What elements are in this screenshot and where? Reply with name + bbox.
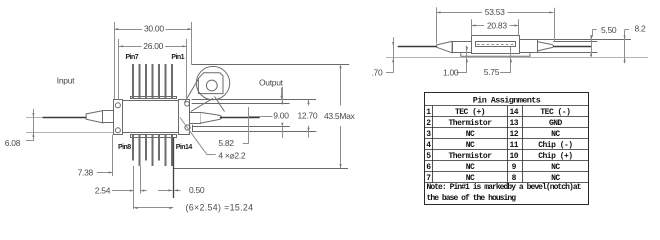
svg-text:the base of the housing: the base of the housing (427, 194, 517, 203)
mounting hole top-left (115, 103, 120, 108)
dim 26.00 line (119, 46, 142, 48)
dim 5.75 stem (510, 47, 512, 70)
svg-text:8.2: 8.2 (635, 24, 646, 34)
long bottom extension line (173, 168, 348, 170)
dim 26.00 extension right (186, 39, 188, 99)
loop bracket diagonal right (215, 97, 225, 112)
mounting hole bottom-left (115, 128, 120, 133)
SIDE VIEW GROUP (437, 36, 631, 57)
table row 7 (426, 174, 560, 183)
SIDE VIEW TEXT (372, 7, 646, 77)
dim 7.38 extension (112, 135, 114, 176)
left flange (114, 100, 123, 135)
side left boot barrel (453, 42, 472, 53)
fiber loop outer circle (196, 66, 229, 99)
dim 30.00 extension left (114, 22, 116, 99)
white gap for 20.83 (485, 22, 510, 31)
side left fiber dark (398, 46, 437, 48)
dim 53.53 ext left (436, 7, 438, 43)
dim 5.75 hook (500, 72, 511, 74)
svg-text:TEC (+): TEC (+) (455, 108, 485, 117)
table outer border (425, 93, 589, 205)
side right boot taper (538, 42, 554, 51)
svg-text:.70: .70 (372, 67, 383, 77)
LEFT VIEW ARROWHEADS (32, 28, 341, 209)
arrow output pointer (280, 96, 282, 100)
svg-text:Pin7: Pin7 (126, 54, 139, 61)
side body (472, 36, 520, 54)
side slot (476, 42, 516, 47)
arrows 15.24 (134, 207, 138, 209)
svg-text:(6×2.54) =15.24: (6×2.54) =15.24 (186, 202, 254, 212)
svg-text:26.00: 26.00 (143, 41, 163, 51)
table row 4 (426, 141, 572, 150)
svg-text:10: 10 (509, 152, 518, 161)
SIDE VIEW DIMENSIONS (386, 7, 629, 73)
arrows 20.83 (472, 24, 476, 26)
svg-text:NC: NC (466, 163, 475, 172)
table row dividers (425, 116, 589, 118)
side base plate (461, 53, 530, 56)
right lower line b (192, 131, 316, 133)
svg-text:9.00: 9.00 (273, 111, 289, 121)
top pin seating strip (131, 97, 177, 99)
arrows 5.50 (590, 35, 592, 39)
svg-text:6.08: 6.08 (5, 138, 21, 148)
dim 15.24 line (134, 207, 173, 209)
svg-text:GND: GND (549, 119, 563, 128)
output snout barrel (190, 113, 201, 124)
dim 2.54 lines (112, 190, 134, 192)
input fiber dark (42, 117, 86, 119)
dim 2.54 extensions (133, 166, 135, 209)
input centerline light (26, 117, 43, 119)
svg-text:Pin1: Pin1 (171, 54, 184, 61)
svg-text:5.82: 5.82 (218, 138, 234, 148)
right lower line a (192, 126, 290, 128)
svg-text:30.00: 30.00 (144, 24, 164, 34)
svg-text:1.00: 1.00 (443, 68, 459, 78)
dim 20.83 ext left (471, 19, 473, 35)
table column lines (432, 106, 434, 183)
dim 1.00 stem (466, 46, 468, 70)
dim 1.00 hook (457, 72, 467, 74)
svg-text:0.50: 0.50 (189, 185, 205, 195)
loop bracket diagonal lower (191, 98, 213, 111)
svg-text:NC: NC (551, 130, 560, 139)
svg-text:12: 12 (509, 130, 518, 139)
input base line light (26, 132, 114, 134)
arrow 7.38 (109, 171, 113, 173)
svg-text:Input: Input (57, 75, 75, 85)
leader 4xdia2.2 (180, 118, 207, 155)
svg-text:NC: NC (466, 174, 475, 183)
dim 0.50 lines (158, 190, 172, 192)
svg-text:3: 3 (426, 130, 431, 139)
svg-text:Chip (+): Chip (+) (538, 152, 572, 161)
arrows 2.54 (130, 190, 134, 192)
side ground line (386, 57, 648, 59)
svg-text:20.83: 20.83 (487, 20, 507, 30)
svg-text:14: 14 (509, 108, 518, 117)
svg-text:NC: NC (551, 174, 560, 183)
side slot dashes (477, 44, 514, 46)
svg-text:5: 5 (426, 152, 431, 161)
table row 6 (426, 163, 560, 172)
svg-text:8: 8 (512, 174, 517, 183)
svg-text:12.70: 12.70 (298, 111, 318, 121)
svg-text:1: 1 (426, 108, 431, 117)
band bottom edge (192, 99, 316, 101)
dim 8.2 hook (625, 29, 629, 31)
input ferrule taper (86, 111, 103, 123)
dim 30.00 line (114, 29, 142, 31)
dim 5.82 hook (243, 143, 249, 145)
SIDE VIEW ARROWHEADS (392, 11, 626, 62)
arrows 9.00 (281, 100, 283, 104)
output fiber dark (220, 117, 260, 119)
LEFT VIEW GROUP (86, 64, 349, 169)
arrows 53.53 (437, 11, 441, 13)
arrow 1.00 (466, 58, 468, 62)
step vertical at lines start (192, 125, 194, 132)
svg-text:5.50: 5.50 (601, 25, 617, 35)
svg-text:2: 2 (426, 119, 431, 128)
dim 7.38 line (97, 172, 113, 174)
svg-text:Chip (-): Chip (-) (538, 141, 572, 150)
fiber loop inner circle (206, 80, 217, 91)
side left boot taper (437, 41, 452, 52)
dim 20.83 line (472, 25, 485, 27)
output pointer stem (281, 88, 283, 97)
mounting hole top-right (185, 102, 190, 107)
dim 30.00 extension right (191, 22, 193, 65)
svg-text:6: 6 (426, 163, 431, 172)
top pins 1-7 (132, 64, 173, 99)
dim 5.50 hook left (593, 29, 597, 31)
dim 53.53 line (437, 12, 483, 14)
svg-text:11: 11 (509, 141, 518, 150)
table row 1 (426, 108, 570, 117)
white gap for 53.53 (483, 8, 508, 17)
dim 12.70 stem (308, 100, 310, 106)
svg-text:13: 13 (509, 119, 518, 128)
svg-text:NC: NC (466, 130, 475, 139)
svg-text:Thermistor: Thermistor (448, 152, 492, 161)
svg-text:9: 9 (512, 163, 517, 172)
fiber clip octagon (198, 73, 223, 94)
dim 43.5 stem (340, 64, 342, 105)
bottom pins 8-14 (132, 135, 173, 167)
PIN TABLE (425, 93, 589, 205)
fiber jacket top line (553, 41, 597, 43)
LEFT VIEW DIMENSIONS (26, 22, 341, 209)
table row 3 (426, 130, 560, 139)
svg-text:5.75: 5.75 (484, 67, 500, 77)
dim 9.00 leader (249, 116, 273, 118)
LEFT VIEW TEXT (5, 24, 356, 213)
arrows 12.70 (307, 100, 309, 104)
svg-text:Pin14: Pin14 (176, 144, 193, 151)
dim 9.00 stem (282, 87, 284, 105)
svg-text:53.53: 53.53 (485, 7, 505, 17)
svg-text:NC: NC (551, 163, 560, 172)
dim 8.2 stem (624, 34, 626, 64)
svg-text:TEC (-): TEC (-) (540, 108, 570, 117)
svg-text:Pin Assignments: Pin Assignments (473, 95, 541, 105)
svg-text:43.5Max: 43.5Max (324, 111, 356, 121)
svg-text:7: 7 (426, 174, 431, 183)
loop bracket diagonal left (185, 79, 199, 103)
input ferrule barrel (103, 111, 114, 123)
arrows 43.5 (339, 64, 341, 68)
side right boot base (537, 39, 539, 52)
dim 5.50 stem (591, 35, 593, 57)
dim .70 hook (386, 72, 393, 74)
arrows .70 (392, 42, 394, 46)
dim .70 stem (393, 37, 395, 70)
thick pin14 extension line (173, 138, 175, 199)
dim 26.00 extension left (118, 39, 120, 99)
band top edge (192, 64, 350, 66)
svg-text:Output: Output (259, 77, 284, 87)
svg-text:Pin8: Pin8 (118, 144, 131, 151)
arrows 26.00 (119, 45, 123, 47)
svg-text:Thermistor: Thermistor (448, 119, 492, 128)
table header divider (425, 105, 589, 107)
band bottom second line (192, 103, 290, 105)
svg-text:2.54: 2.54 (95, 186, 111, 196)
output snout taper (200, 112, 221, 123)
dim 53.53 ext right (554, 8, 556, 42)
bottom pin seating strip (131, 135, 177, 138)
right flange (179, 100, 190, 135)
svg-text:Note: Pin#1 is markedby a beve: Note: Pin#1 is markedby a bevel(notch)at (427, 183, 582, 192)
dim 6.08 leader (33, 109, 35, 141)
arrow 5.75 (510, 58, 512, 62)
table row 5 (426, 152, 572, 161)
arrows 8.2 (624, 35, 626, 39)
arrows 30.00 (114, 28, 118, 30)
svg-text:7.38: 7.38 (78, 168, 94, 178)
dim 20.83 ext right (518, 19, 520, 35)
side right fiber dark (553, 46, 591, 48)
mounting hole bottom-right (185, 125, 190, 130)
svg-text:4: 4 (426, 141, 431, 150)
svg-text:NC: NC (466, 141, 475, 150)
arrows 6.08 (32, 113, 34, 117)
package body (123, 101, 179, 133)
side right tube bottom (520, 52, 598, 54)
dim 5.82 tick vertical (248, 107, 250, 143)
table row 2 (426, 119, 562, 128)
svg-text:4 ×⌀2.2: 4 ×⌀2.2 (218, 150, 245, 160)
arrows 0.50 (168, 189, 172, 191)
side right tube top (520, 39, 632, 41)
